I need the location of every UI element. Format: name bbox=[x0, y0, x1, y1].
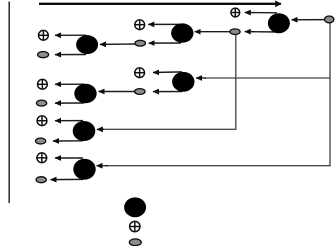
arrow unit h3 to plus p3 bbox=[55, 34, 86, 36]
plus p1 bbox=[231, 8, 240, 17]
node d3 bbox=[135, 89, 145, 95]
arrow unit h2 to plus p2 bbox=[148, 23, 181, 25]
wire input e0 branch into unit h4 bbox=[205, 77, 330, 79]
unit h6 bbox=[73, 159, 95, 180]
arrow unit h3 to node d2 bbox=[55, 54, 86, 56]
arrow unit h2 to node d1 bbox=[149, 42, 181, 44]
arrow into unit h6 bbox=[97, 165, 109, 167]
unit h5col bbox=[74, 84, 96, 103]
arrow unit h6 to plus p7 bbox=[55, 157, 83, 159]
unit h4 bbox=[172, 72, 194, 92]
connector from node d0 down to unit h5 bbox=[101, 34, 236, 129]
input e0 bbox=[325, 16, 334, 23]
legend data symbol bbox=[129, 239, 141, 246]
arrow node d0 to unit h2 bbox=[195, 31, 230, 33]
unit h1 bbox=[268, 13, 290, 33]
arrow unit h1 to plus p1 bbox=[245, 12, 277, 14]
node d5 bbox=[36, 138, 46, 144]
legend plus symbol bbox=[130, 221, 140, 231]
unit h5 bbox=[73, 121, 96, 141]
plus p2 bbox=[135, 20, 145, 30]
arrow unit h4 to node d3 bbox=[153, 91, 182, 93]
legend unit symbol bbox=[124, 197, 146, 217]
arrow into unit h4 bbox=[196, 77, 206, 79]
plus p6 bbox=[37, 116, 47, 126]
unit h2 bbox=[171, 23, 193, 42]
plus p7 bbox=[37, 153, 47, 163]
arrow node d3 to unit h5col bbox=[99, 91, 135, 93]
top time arrow bbox=[39, 3, 281, 5]
arrow input e0 to unit h1 bbox=[292, 19, 326, 21]
arrow node d1 to unit h3 bbox=[100, 43, 135, 45]
connector from input e0 down to unit h6 bbox=[105, 23, 330, 166]
node d6 bbox=[36, 177, 46, 183]
arrow unit h5 to plus p6 bbox=[55, 120, 83, 122]
arrow unit h5col to node d4 bbox=[55, 102, 84, 104]
arrow unit h5col to plus p5 bbox=[55, 83, 84, 85]
left axis vertical line bbox=[8, 2, 10, 204]
arrow unit h4 to plus p4 bbox=[153, 71, 182, 74]
node d0 bbox=[230, 29, 240, 35]
arrow unit h5 to node d5 bbox=[53, 140, 83, 142]
arrow unit h1 to node d0 bbox=[245, 31, 277, 33]
plus p3 bbox=[39, 30, 49, 40]
arrow into unit h5 bbox=[97, 128, 104, 130]
arrow unit h6 to node d6 bbox=[51, 178, 84, 180]
node d1 bbox=[135, 40, 145, 46]
unit h3 bbox=[76, 35, 98, 54]
node d2 bbox=[38, 52, 49, 58]
plus p5 bbox=[38, 79, 48, 89]
node d4 bbox=[37, 100, 47, 106]
plus p4 bbox=[135, 68, 145, 78]
